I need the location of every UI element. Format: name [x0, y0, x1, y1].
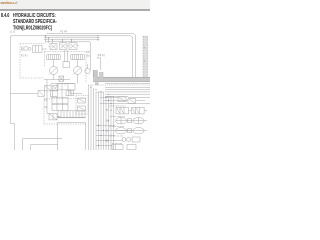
inter box IB1 [128, 119, 132, 123]
svg-text:(b): (b) [87, 54, 90, 58]
wire: lower bus h1 [105, 82, 150, 84]
check box X1 [59, 76, 64, 81]
cylinder pair CYL1 [122, 137, 140, 142]
label row r4 [112, 143, 123, 145]
tank rect T1 [58, 123, 86, 151]
pump P2 circle [74, 60, 82, 75]
hatched band drop below [95, 82, 99, 86]
svg-text:xxx xxx xx xxx: xxx xxx xx xxx [109, 136, 124, 138]
wire: bottom-left corner L1 [23, 139, 63, 150]
wire from B1 [42, 48, 47, 50]
dashed box lower-middle [76, 96, 88, 115]
aux valve AV1 [45, 86, 52, 91]
svg-text:P1 P2: P1 P2 [21, 55, 28, 58]
wire: pilot bus line 4 [46, 41, 90, 43]
motor M4 ellipse [115, 128, 126, 134]
dashed enclosure around valve stack [44, 99, 86, 125]
wire: ladder rungs [96, 126, 133, 146]
heading line 3 [13, 25, 52, 32]
wire: bank bottom line [58, 117, 86, 119]
gauge circle G2 [28, 47, 31, 50]
valve stack VS2 [52, 104, 68, 111]
wire: vertical line a [90, 42, 92, 70]
label text above border [10, 30, 68, 34]
node dots on ladder [98, 110, 112, 146]
wire: inner top border line [11, 36, 133, 77]
solenoid block SB1 [116, 107, 129, 114]
svg-text:HYDRAULIC CIRCUITS:: HYDRAULIC CIRCUITS: [13, 12, 56, 19]
node dots on bus [91, 87, 110, 95]
svg-text:8.4.6: 8.4.6 [1, 12, 10, 19]
wire: left border vertical [11, 36, 15, 150]
svg-text:P T: P T [98, 57, 102, 60]
aux valve AV2 [53, 86, 58, 91]
mid text label [98, 54, 105, 60]
text label t3 [21, 55, 28, 58]
svg-text:a1: a1 [106, 110, 109, 112]
heading line 2 [13, 19, 57, 26]
wire: down from M1 [62, 90, 82, 97]
svg-text:TION[LR01Z08020FC]: TION[LR01Z08020FC] [13, 25, 52, 32]
solenoid valve SV2 [60, 43, 69, 50]
toolbar strip [0, 0, 150, 10]
end box E1 [112, 145, 123, 150]
sub valve box SV5 [128, 99, 136, 104]
wire: lower bus h6 [105, 93, 150, 95]
wire: under pumps [44, 75, 78, 86]
hatched pilot band vertical (right) [143, 36, 148, 78]
wire: bottom-left corner L2 [31, 145, 59, 150]
end box E2 [127, 145, 136, 150]
stack labels [44, 99, 48, 109]
relief valve RV1 [38, 90, 44, 96]
heading line 1 [13, 12, 56, 19]
solenoid valve SV3 [69, 43, 79, 50]
wire: lower bus h3 [105, 86, 150, 88]
toolbar plus button [15, 2, 18, 5]
label row r3 [109, 136, 124, 138]
wire: pilot bus line 2 [44, 37, 98, 39]
wire: bundle elbows [96, 92, 114, 97]
svg-text:STANDARD SPECIFICA-: STANDARD SPECIFICA- [13, 19, 57, 26]
solenoid valve SV1 [49, 44, 57, 50]
hatched band vertical stub [93, 70, 97, 78]
motor M3 ellipse [133, 118, 144, 125]
wire: riser bundle [89, 85, 114, 150]
svg-text:d1: d1 [106, 141, 109, 143]
pilot valve PV1 [78, 98, 86, 103]
wire: outer top border line [47, 34, 136, 77]
dashed pump enclosure [45, 52, 87, 84]
hatched band vertical stub 2 [100, 72, 103, 78]
swash actuator A2 [71, 55, 85, 60]
svg-text:P3 P4: P3 P4 [60, 30, 68, 34]
pump P1 circle [50, 60, 58, 75]
wire: lower bus h7 [105, 96, 128, 98]
wire: vertical line b [100, 59, 102, 71]
svg-text:t1 t2: t1 t2 [10, 30, 16, 34]
wire: pump outlet lines [51, 84, 75, 86]
heading number 8.4.6 [1, 12, 10, 19]
arrowheads on pilot bus [98, 35, 100, 41]
wire: lower bus h5 [105, 91, 150, 93]
motor M5 ellipse [133, 128, 144, 134]
node dots on feeds [106, 97, 112, 104]
main block M1 [58, 84, 75, 90]
label row r1 [110, 116, 126, 118]
label row r0 [108, 106, 127, 108]
wire: right feeds [100, 98, 150, 104]
valve stack VS1 [52, 97, 68, 104]
sub valve box SV4 [118, 97, 126, 102]
toolbar bottom border [0, 9, 150, 11]
gauge circle G1 [24, 46, 28, 50]
dashed enclosure upper-left [20, 44, 44, 79]
row labels [106, 110, 109, 143]
check valve CV2 [49, 114, 61, 120]
hatched return band horizontal [93, 77, 150, 81]
node label (a) [87, 50, 90, 58]
node dots on pilot bus [45, 35, 72, 40]
svg-text:(a): (a) [87, 50, 90, 54]
pilot pump P3 circle [85, 64, 90, 74]
label row r2 [109, 126, 125, 128]
small box S2 [51, 91, 58, 97]
pilot valve PV2 [78, 106, 86, 111]
regulator box R1 [63, 50, 69, 68]
svg-text:sandbox-s...: sandbox-s... [0, 1, 16, 5]
filter F1 marks [22, 47, 24, 52]
motor M2 ellipse [115, 118, 126, 125]
wire: left return [11, 93, 38, 95]
aux box AV3 [66, 91, 74, 96]
wire: lower bus h4 [105, 89, 150, 91]
valve bank row VB [58, 111, 85, 118]
wire: riser to CV2 [47, 85, 49, 114]
wire: drop to solenoid valves [46, 36, 72, 44]
swash actuator A1 [47, 55, 61, 60]
wire: connect rows [127, 111, 147, 131]
wire: lower bus h2 (dashed) [88, 84, 150, 86]
solenoid block SB2 [132, 107, 145, 114]
wire: pilot bus line 3 [44, 39, 98, 41]
valve block B1 [33, 46, 42, 53]
inter box IB2 [128, 129, 132, 133]
wire: pilot bus line 1 [44, 35, 98, 37]
